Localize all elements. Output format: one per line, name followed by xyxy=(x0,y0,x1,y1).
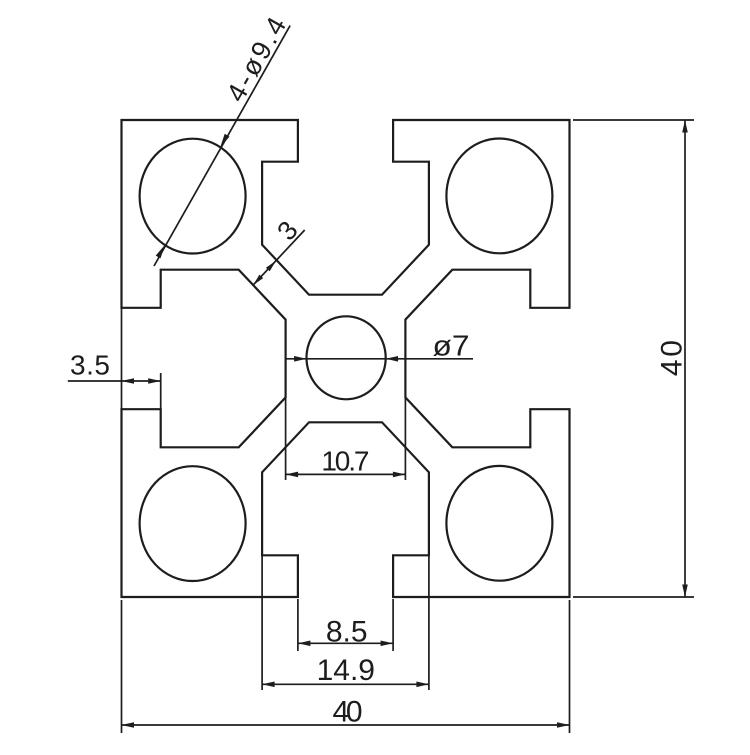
dimension 3 web: arrowheads xyxy=(266,261,276,272)
dimension 3.5: arrowheads xyxy=(122,378,135,384)
dimension 8.5: dimension line xyxy=(298,642,393,644)
dimension 3.5: extension line outer (through slot opening) xyxy=(121,308,123,409)
corner hole top-right xyxy=(446,139,552,254)
dimension 40 bottom: extension line right xyxy=(569,600,571,733)
dimension 10.7: extension line right xyxy=(404,398,406,480)
dimension 8.5: extension line right xyxy=(392,599,394,651)
dimension 10.7: arrowheads xyxy=(286,472,299,478)
center hole xyxy=(307,316,386,399)
profile outline 40x40 extrusion cross-section xyxy=(122,120,570,597)
corner hole bottom-left xyxy=(140,466,246,581)
svg-text:40: 40 xyxy=(333,696,363,729)
dimension 3 web: leader line xyxy=(253,230,305,285)
dimension dia7: dimension line xyxy=(286,358,473,360)
corner hole top-left xyxy=(140,139,246,254)
svg-text:ø7: ø7 xyxy=(433,331,470,363)
dimension 40 right: dimension line xyxy=(684,120,686,597)
dimension 40 right: arrowheads xyxy=(682,120,688,133)
dimension 14.9: extension line left xyxy=(261,556,263,690)
svg-text:10.7: 10.7 xyxy=(321,446,369,477)
dimension 14.9: extension line right xyxy=(428,556,430,690)
dimension 40 bottom: arrowheads xyxy=(122,722,135,728)
dimension 40 bottom: dimension line xyxy=(122,724,570,726)
dimension 4-dia9.4: leader line through top-left hole xyxy=(154,26,290,266)
dimension 10.7: dimension line xyxy=(286,473,406,475)
svg-text:14.9: 14.9 xyxy=(317,654,375,687)
svg-text:8.5: 8.5 xyxy=(326,616,368,649)
dimension 40 right: extension line top xyxy=(573,119,694,121)
dimension 3.5: extension line inner xyxy=(160,373,162,410)
dimension 40 right: extension line bottom xyxy=(573,596,694,598)
dimension 3.5: dimension line xyxy=(68,380,161,382)
dimension 8.5: extension line left xyxy=(297,599,299,651)
dimension 4-dia9.4: arrowheads at hole edges xyxy=(220,134,229,148)
dimension 40 bottom: extension line left xyxy=(121,600,123,733)
dimension 8.5: arrowheads xyxy=(298,641,311,647)
svg-text:3.5: 3.5 xyxy=(70,350,110,381)
dimension 14.9: dimension line xyxy=(262,683,429,685)
dimension 14.9: arrowheads xyxy=(262,682,275,688)
corner hole bottom-right xyxy=(446,466,552,581)
dimension 10.7: extension line left xyxy=(285,398,287,480)
dimension dia7: arrowheads at hole edges xyxy=(294,356,307,362)
